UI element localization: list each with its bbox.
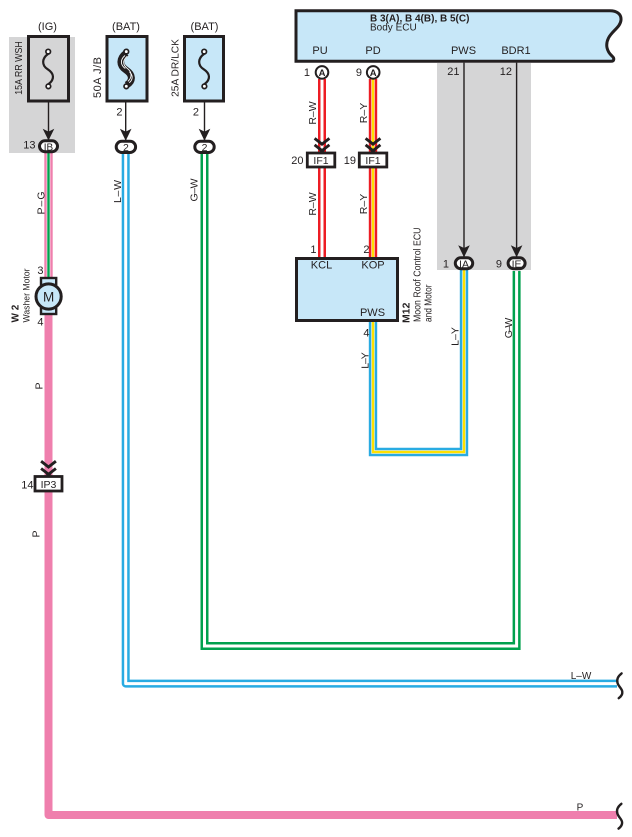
svg-text:14: 14 (21, 480, 33, 492)
svg-text:Body ECU: Body ECU (370, 23, 417, 34)
svg-text:R–W: R–W (307, 192, 319, 215)
svg-text:4: 4 (363, 328, 369, 340)
svg-text:A: A (370, 68, 377, 79)
svg-text:2: 2 (193, 107, 199, 119)
svg-text:L–Y: L–Y (360, 352, 372, 369)
svg-text:4: 4 (37, 317, 43, 329)
svg-text:P: P (34, 382, 46, 389)
svg-text:G–W: G–W (189, 178, 201, 201)
svg-text:BDR1: BDR1 (501, 45, 530, 57)
svg-text:KOP: KOP (361, 260, 384, 272)
svg-text:R–W: R–W (307, 101, 319, 124)
svg-text:P: P (31, 530, 43, 537)
svg-text:IP3: IP3 (41, 479, 57, 491)
svg-text:R–Y: R–Y (358, 103, 370, 123)
svg-text:and Motor: and Motor (424, 284, 435, 322)
svg-text:9: 9 (356, 67, 362, 79)
svg-text:L–Y: L–Y (450, 327, 462, 346)
svg-text:13: 13 (23, 140, 35, 152)
svg-text:A: A (319, 68, 326, 79)
svg-text:G–W: G–W (503, 318, 515, 339)
svg-text:KCL: KCL (311, 260, 332, 272)
svg-text:IF1: IF1 (313, 155, 328, 167)
svg-text:M: M (43, 290, 54, 305)
svg-text:12: 12 (500, 66, 512, 78)
svg-text:(BAT): (BAT) (112, 21, 140, 33)
svg-text:1: 1 (310, 244, 316, 256)
svg-text:21: 21 (447, 66, 459, 78)
svg-text:IB: IB (44, 143, 54, 154)
svg-text:IE: IE (512, 259, 522, 271)
svg-text:(IG): (IG) (38, 21, 57, 33)
svg-text:M12: M12 (401, 302, 413, 323)
svg-text:PU: PU (312, 45, 327, 57)
svg-text:15A RR WSH: 15A RR WSH (14, 41, 25, 95)
svg-text:2: 2 (116, 107, 122, 119)
svg-text:IA: IA (459, 259, 469, 271)
svg-text:P: P (577, 803, 584, 814)
svg-text:L–W: L–W (112, 180, 124, 203)
svg-text:(BAT): (BAT) (191, 21, 219, 33)
svg-text:R–Y: R–Y (358, 194, 370, 214)
svg-text:1: 1 (443, 259, 449, 271)
svg-text:PD: PD (365, 45, 380, 57)
svg-text:W 2: W 2 (11, 304, 22, 322)
svg-text:9: 9 (496, 259, 502, 271)
svg-text:25A DR/LCK: 25A DR/LCK (171, 39, 182, 97)
svg-text:1: 1 (304, 67, 310, 79)
svg-text:2: 2 (202, 142, 208, 154)
svg-text:2: 2 (123, 142, 129, 154)
svg-text:3: 3 (37, 265, 43, 277)
svg-text:2: 2 (363, 244, 369, 256)
svg-text:IF1: IF1 (365, 155, 380, 167)
svg-text:Washer Motor: Washer Motor (22, 269, 33, 323)
svg-text:P–G: P–G (36, 192, 48, 215)
svg-text:50A J/B: 50A J/B (92, 57, 104, 98)
svg-text:L–W: L–W (571, 671, 592, 682)
svg-text:20: 20 (291, 155, 303, 167)
svg-text:Moon Roof Control ECU: Moon Roof Control ECU (413, 228, 424, 323)
svg-text:PWS: PWS (451, 45, 476, 57)
svg-text:PWS: PWS (360, 307, 385, 319)
svg-text:19: 19 (344, 155, 356, 167)
